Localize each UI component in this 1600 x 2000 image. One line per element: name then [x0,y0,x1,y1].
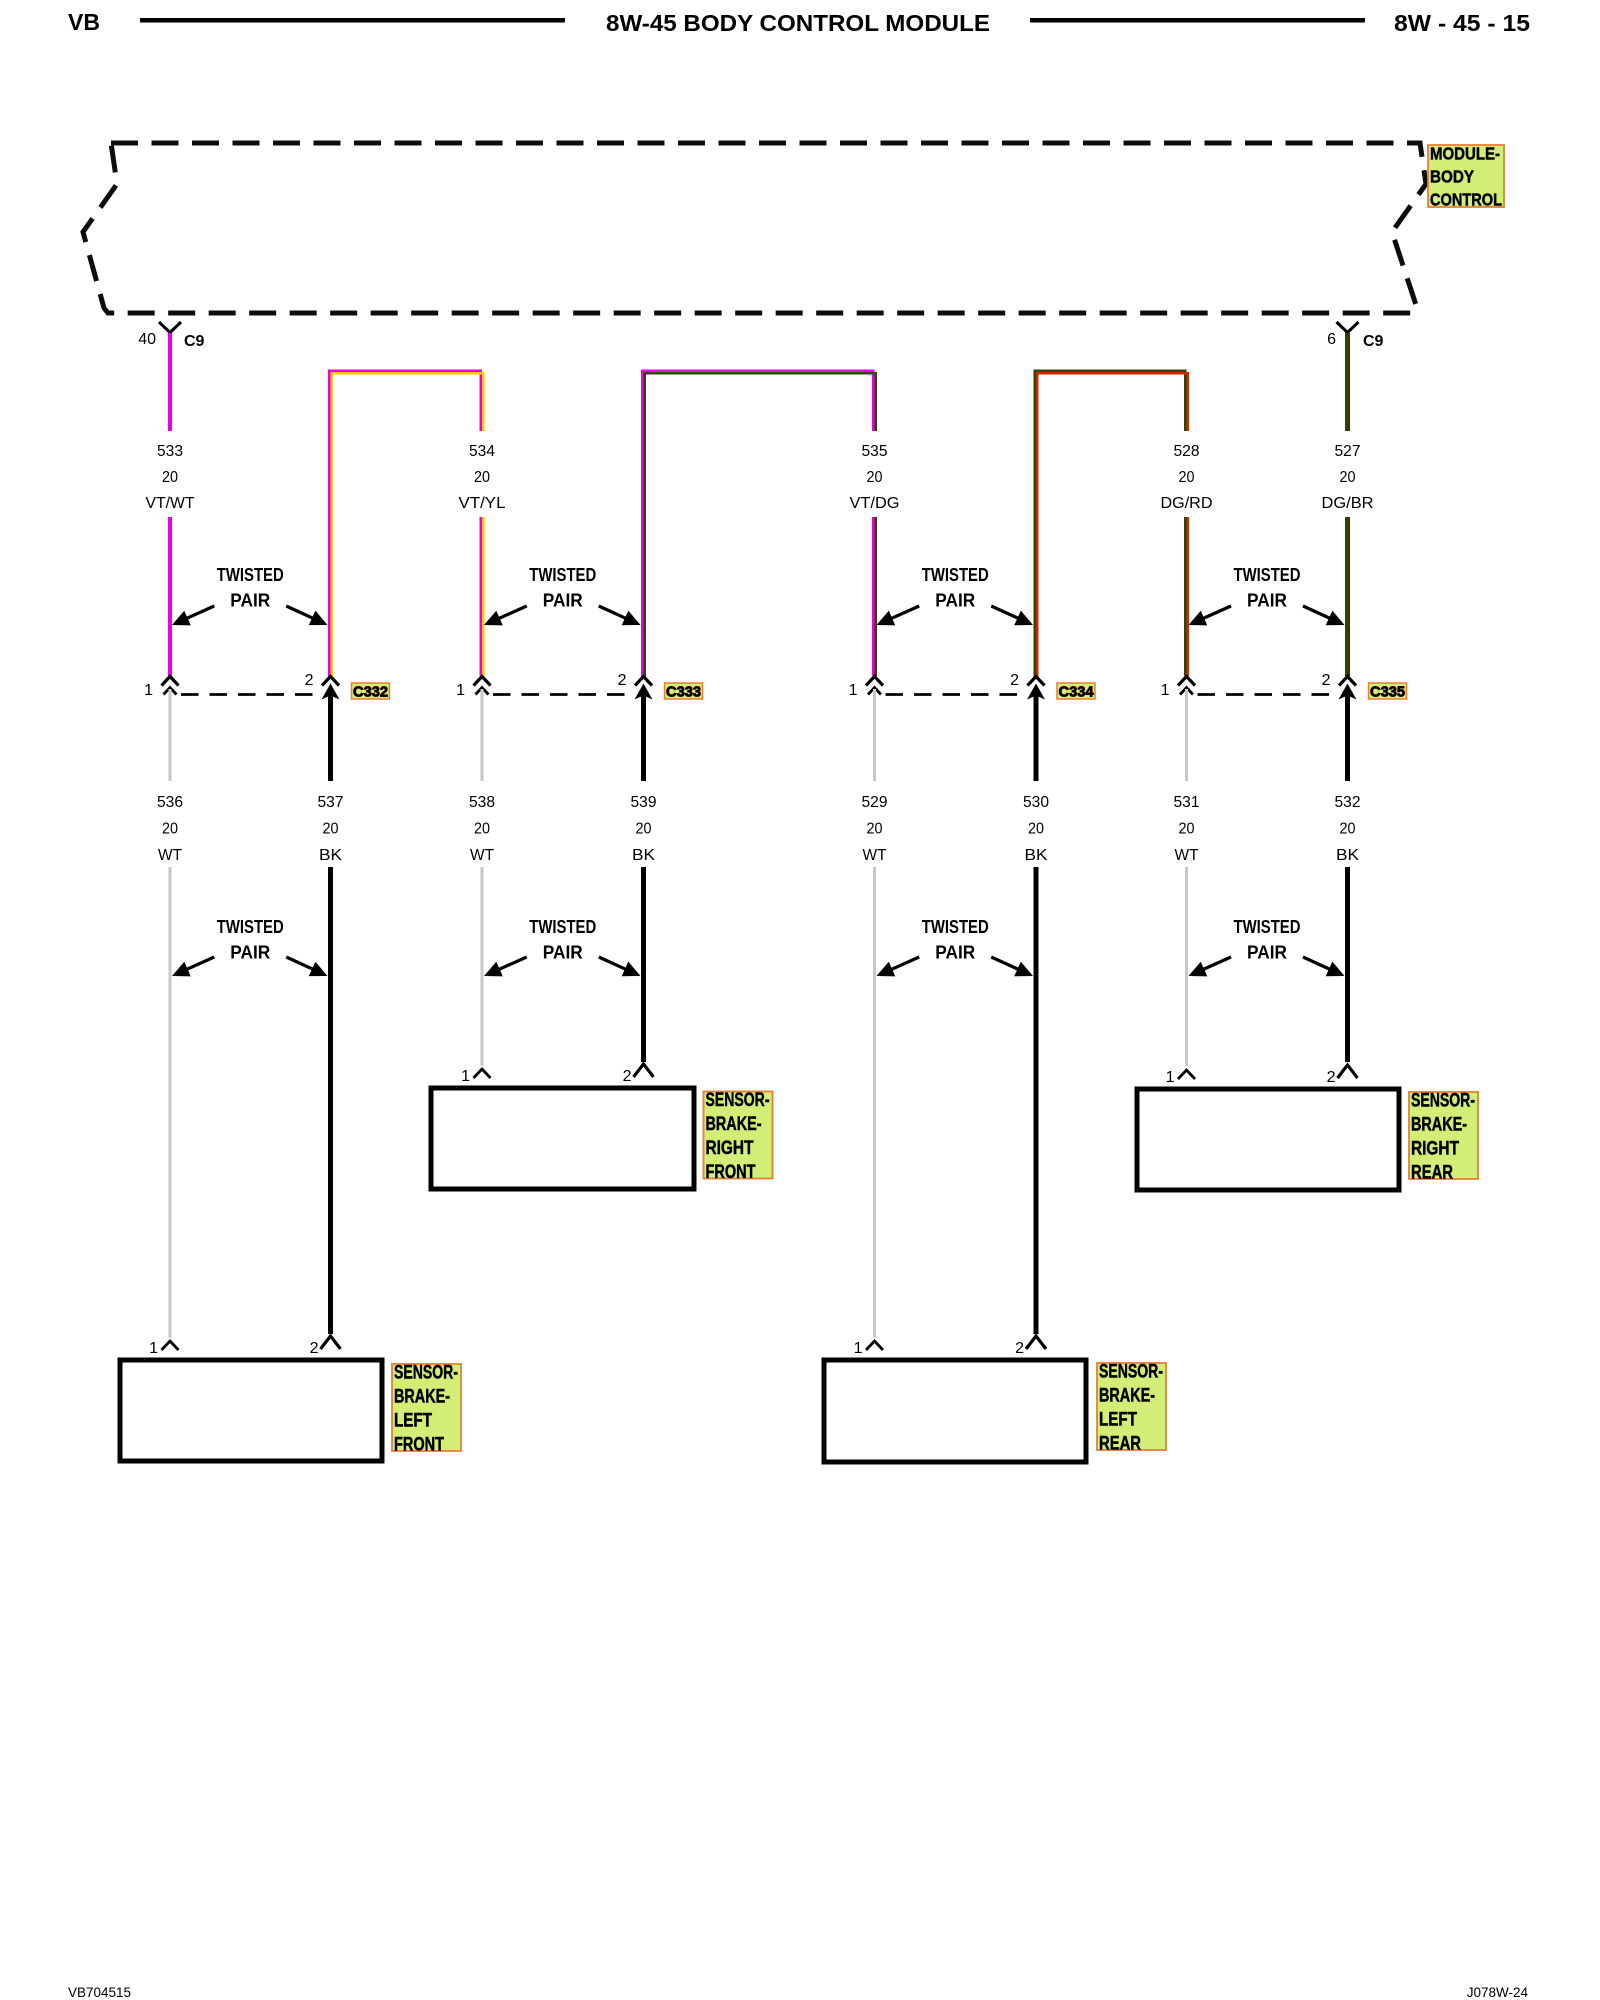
svg-text:VT/DG: VT/DG [850,495,900,512]
svg-text:20: 20 [1179,821,1195,838]
sensor: SENSOR-BRAKE-LEFT FRONT (component box) [120,1360,382,1461]
wire 532 20 BK (black) [1335,684,1361,1063]
svg-text:BODY: BODY [1430,167,1474,187]
svg-text:2: 2 [623,1068,632,1085]
svg-text:20: 20 [162,821,178,838]
svg-text:C335: C335 [1370,684,1405,701]
connector C334 pin 2 [1010,672,1044,689]
twisted pair annotation (upper row, wires at x=170/330.5) [172,565,328,625]
label: sensor: SENSOR-BRAKE-RIGHT FRONT [704,1090,773,1183]
twisted pair annotation (upper row, wires at x=1186.5/1347.5) [1189,565,1345,625]
svg-text:534: 534 [469,443,495,460]
svg-text:C332: C332 [353,684,388,701]
svg-text:J078W-24: J078W-24 [1467,1985,1529,2000]
svg-text:20: 20 [474,821,490,838]
svg-text:FRONT: FRONT [394,1435,444,1456]
svg-text:1: 1 [1161,682,1170,699]
svg-text:DG/BR: DG/BR [1322,495,1374,512]
svg-text:2: 2 [1010,672,1019,689]
svg-text:2: 2 [618,672,627,689]
svg-text:PAIR: PAIR [230,943,270,963]
svg-text:TWISTED: TWISTED [1234,565,1301,585]
page header [68,9,1530,36]
label C335 [1369,683,1407,701]
svg-text:REAR: REAR [1099,1434,1141,1455]
connector C334 pin 1 [849,677,883,700]
svg-text:WT: WT [470,847,494,864]
svg-text:530: 530 [1023,794,1049,811]
label: MODULE-BODY CONTROL [1428,144,1504,210]
svg-text:DG/RD: DG/RD [1161,495,1213,512]
connector C333 dashed body line [493,693,632,696]
svg-text:PAIR: PAIR [935,943,975,963]
svg-text:REAR: REAR [1411,1163,1453,1184]
svg-text:TWISTED: TWISTED [217,565,284,585]
sensor: SENSOR-BRAKE-RIGHT REAR (component box) [1137,1089,1399,1190]
wire 534 20 VT/YL (C332 pin 2 to C333 pin 1) [329,371,505,677]
svg-text:528: 528 [1174,443,1200,460]
svg-text:BK: BK [632,847,655,864]
svg-text:20: 20 [1028,821,1044,838]
svg-text:BRAKE-: BRAKE- [1411,1115,1467,1136]
label: sensor: SENSOR-BRAKE-RIGHT REAR [1409,1091,1478,1184]
sensor: SENSOR-BRAKE-RIGHT FRONT (component box) [431,1088,694,1189]
svg-text:8W - 45 - 15: 8W - 45 - 15 [1394,10,1530,36]
svg-text:1: 1 [456,682,465,699]
svg-text:2: 2 [1327,1069,1336,1086]
wire 528 20 DG/RD (C334 pin 2 to C335 pin 1) [1035,371,1213,677]
pin 40 of connector C9 (BCM) [138,322,204,350]
label C332 [352,683,390,701]
svg-text:8W-45 BODY CONTROL MODULE: 8W-45 BODY CONTROL MODULE [606,10,990,36]
svg-text:533: 533 [157,443,183,460]
svg-text:SENSOR-: SENSOR- [706,1090,770,1111]
sensor: SENSOR-BRAKE-LEFT REAR pin 1 [854,1340,883,1357]
svg-text:TWISTED: TWISTED [217,917,284,937]
svg-text:531: 531 [1174,794,1200,811]
sensor: SENSOR-BRAKE-RIGHT REAR pin 1 [1166,1069,1195,1086]
svg-text:TWISTED: TWISTED [922,565,989,585]
svg-text:1: 1 [144,682,153,699]
svg-text:6: 6 [1327,331,1336,348]
svg-text:PAIR: PAIR [935,591,975,611]
label C333 [665,683,703,701]
twisted pair annotation (lower row, wires at x=482/643.5) [484,917,641,976]
svg-text:BK: BK [1025,847,1048,864]
svg-text:20: 20 [323,821,339,838]
svg-text:20: 20 [162,469,178,486]
twisted pair annotation (upper row, wires at x=482/643.5) [484,565,641,625]
connector C335 pin 2 [1322,672,1356,689]
wire 535 20 VT/DG (C333 pin 2 to C334 pin 1) [642,371,899,677]
label: sensor: SENSOR-BRAKE-LEFT FRONT [392,1363,461,1456]
twisted pair annotation (lower row, wires at x=1186.5/1347.5) [1189,917,1345,976]
svg-text:TWISTED: TWISTED [529,917,596,937]
svg-text:20: 20 [867,821,883,838]
svg-text:1: 1 [149,1340,158,1357]
svg-text:2: 2 [310,1340,319,1357]
sensor: SENSOR-BRAKE-RIGHT FRONT pin 2 [623,1064,654,1085]
sensor: SENSOR-BRAKE-RIGHT REAR pin 2 [1327,1065,1358,1086]
svg-text:40: 40 [138,331,156,348]
svg-text:BK: BK [1336,847,1359,864]
wire 533 20 VT/WT (BCM C9 pin 40 to C332 pin 1) [146,333,195,676]
connector C333 pin 2 [618,672,652,689]
svg-text:532: 532 [1335,794,1361,811]
svg-text:CONTROL: CONTROL [1430,190,1502,210]
svg-text:WT: WT [158,847,182,864]
svg-text:C9: C9 [184,333,205,350]
svg-text:535: 535 [862,443,888,460]
wire 539 20 BK (black) [631,684,657,1063]
svg-text:527: 527 [1335,443,1361,460]
module: BODY CONTROL MODULE (dashed outline, break symbol edges) [83,143,1426,313]
svg-text:1: 1 [461,1068,470,1085]
label: sensor: SENSOR-BRAKE-LEFT REAR [1097,1362,1166,1455]
svg-text:VB: VB [68,9,100,35]
svg-text:537: 537 [318,794,344,811]
sensor: SENSOR-BRAKE-LEFT REAR (component box) [824,1360,1086,1462]
svg-text:1: 1 [1166,1069,1175,1086]
connector C335 pin 1 [1161,677,1195,700]
svg-text:2: 2 [1015,1340,1024,1357]
sensor: SENSOR-BRAKE-RIGHT FRONT pin 1 [461,1068,490,1085]
svg-text:TWISTED: TWISTED [529,565,596,585]
svg-text:LEFT: LEFT [1099,1410,1137,1431]
svg-text:20: 20 [474,469,490,486]
svg-text:SENSOR-: SENSOR- [1099,1362,1163,1383]
svg-text:WT: WT [863,847,887,864]
svg-text:VB704515: VB704515 [68,1985,131,2000]
svg-text:MODULE-: MODULE- [1430,144,1500,164]
svg-text:BRAKE-: BRAKE- [706,1114,762,1135]
twisted pair annotation (upper row, wires at x=874.5/1036) [877,565,1034,625]
svg-text:1: 1 [854,1340,863,1357]
pin 6 of connector C9 (BCM) [1327,322,1383,350]
svg-text:529: 529 [862,794,888,811]
svg-text:BK: BK [319,847,342,864]
sensor: SENSOR-BRAKE-LEFT FRONT pin 1 [149,1340,178,1357]
svg-text:RIGHT: RIGHT [1411,1139,1459,1160]
svg-text:20: 20 [636,821,652,838]
connector C334 dashed body line [886,693,1025,696]
connector C332 pin 2 [305,672,339,689]
svg-text:C334: C334 [1059,684,1095,701]
sensor: SENSOR-BRAKE-LEFT REAR pin 2 [1015,1336,1046,1357]
svg-text:FRONT: FRONT [706,1162,756,1183]
svg-text:PAIR: PAIR [543,943,583,963]
twisted pair annotation (lower row, wires at x=170/330.5) [172,917,328,976]
twisted pair annotation (lower row, wires at x=874.5/1036) [877,917,1034,976]
wire 537 20 BK (black) [318,684,344,1335]
wire 538 20 WT (white) [469,689,495,1066]
svg-text:20: 20 [1179,469,1195,486]
wire 531 20 WT (white) [1174,689,1200,1066]
svg-text:SENSOR-: SENSOR- [394,1363,458,1384]
footer sheet codes [68,1985,1528,2000]
svg-text:538: 538 [469,794,495,811]
svg-text:RIGHT: RIGHT [706,1138,754,1159]
svg-text:539: 539 [631,794,657,811]
svg-text:LEFT: LEFT [394,1411,432,1432]
svg-text:2: 2 [1322,672,1331,689]
svg-text:C333: C333 [666,684,701,701]
svg-text:2: 2 [305,672,314,689]
svg-text:TWISTED: TWISTED [922,917,989,937]
svg-text:VT/YL: VT/YL [459,495,506,512]
wire 530 20 BK (black) [1023,684,1049,1335]
svg-text:PAIR: PAIR [1247,591,1287,611]
svg-text:BRAKE-: BRAKE- [394,1387,450,1408]
sensor: SENSOR-BRAKE-LEFT FRONT pin 2 [310,1336,341,1357]
svg-text:20: 20 [867,469,883,486]
svg-text:20: 20 [1340,821,1356,838]
connector C332 dashed body line [181,693,319,696]
svg-text:VT/WT: VT/WT [146,495,195,512]
svg-text:WT: WT [1175,847,1199,864]
connector C332 pin 1 [144,677,178,700]
svg-text:PAIR: PAIR [1247,943,1287,963]
svg-text:1: 1 [849,682,858,699]
svg-text:536: 536 [157,794,183,811]
svg-text:PAIR: PAIR [230,591,270,611]
svg-text:BRAKE-: BRAKE- [1099,1386,1155,1407]
label C334 [1057,683,1095,701]
svg-text:PAIR: PAIR [543,591,583,611]
wire 527 20 DG/BR (BCM C9 pin 6 to C335 pin 2) [1322,333,1374,676]
svg-text:TWISTED: TWISTED [1234,917,1301,937]
svg-text:20: 20 [1340,469,1356,486]
svg-text:SENSOR-: SENSOR- [1411,1091,1475,1112]
connector C333 pin 1 [456,677,490,700]
wire 529 20 WT (white) [862,689,888,1338]
connector C335 dashed body line [1198,693,1336,696]
svg-text:C9: C9 [1363,333,1384,350]
wire 536 20 WT (white) [157,689,183,1338]
